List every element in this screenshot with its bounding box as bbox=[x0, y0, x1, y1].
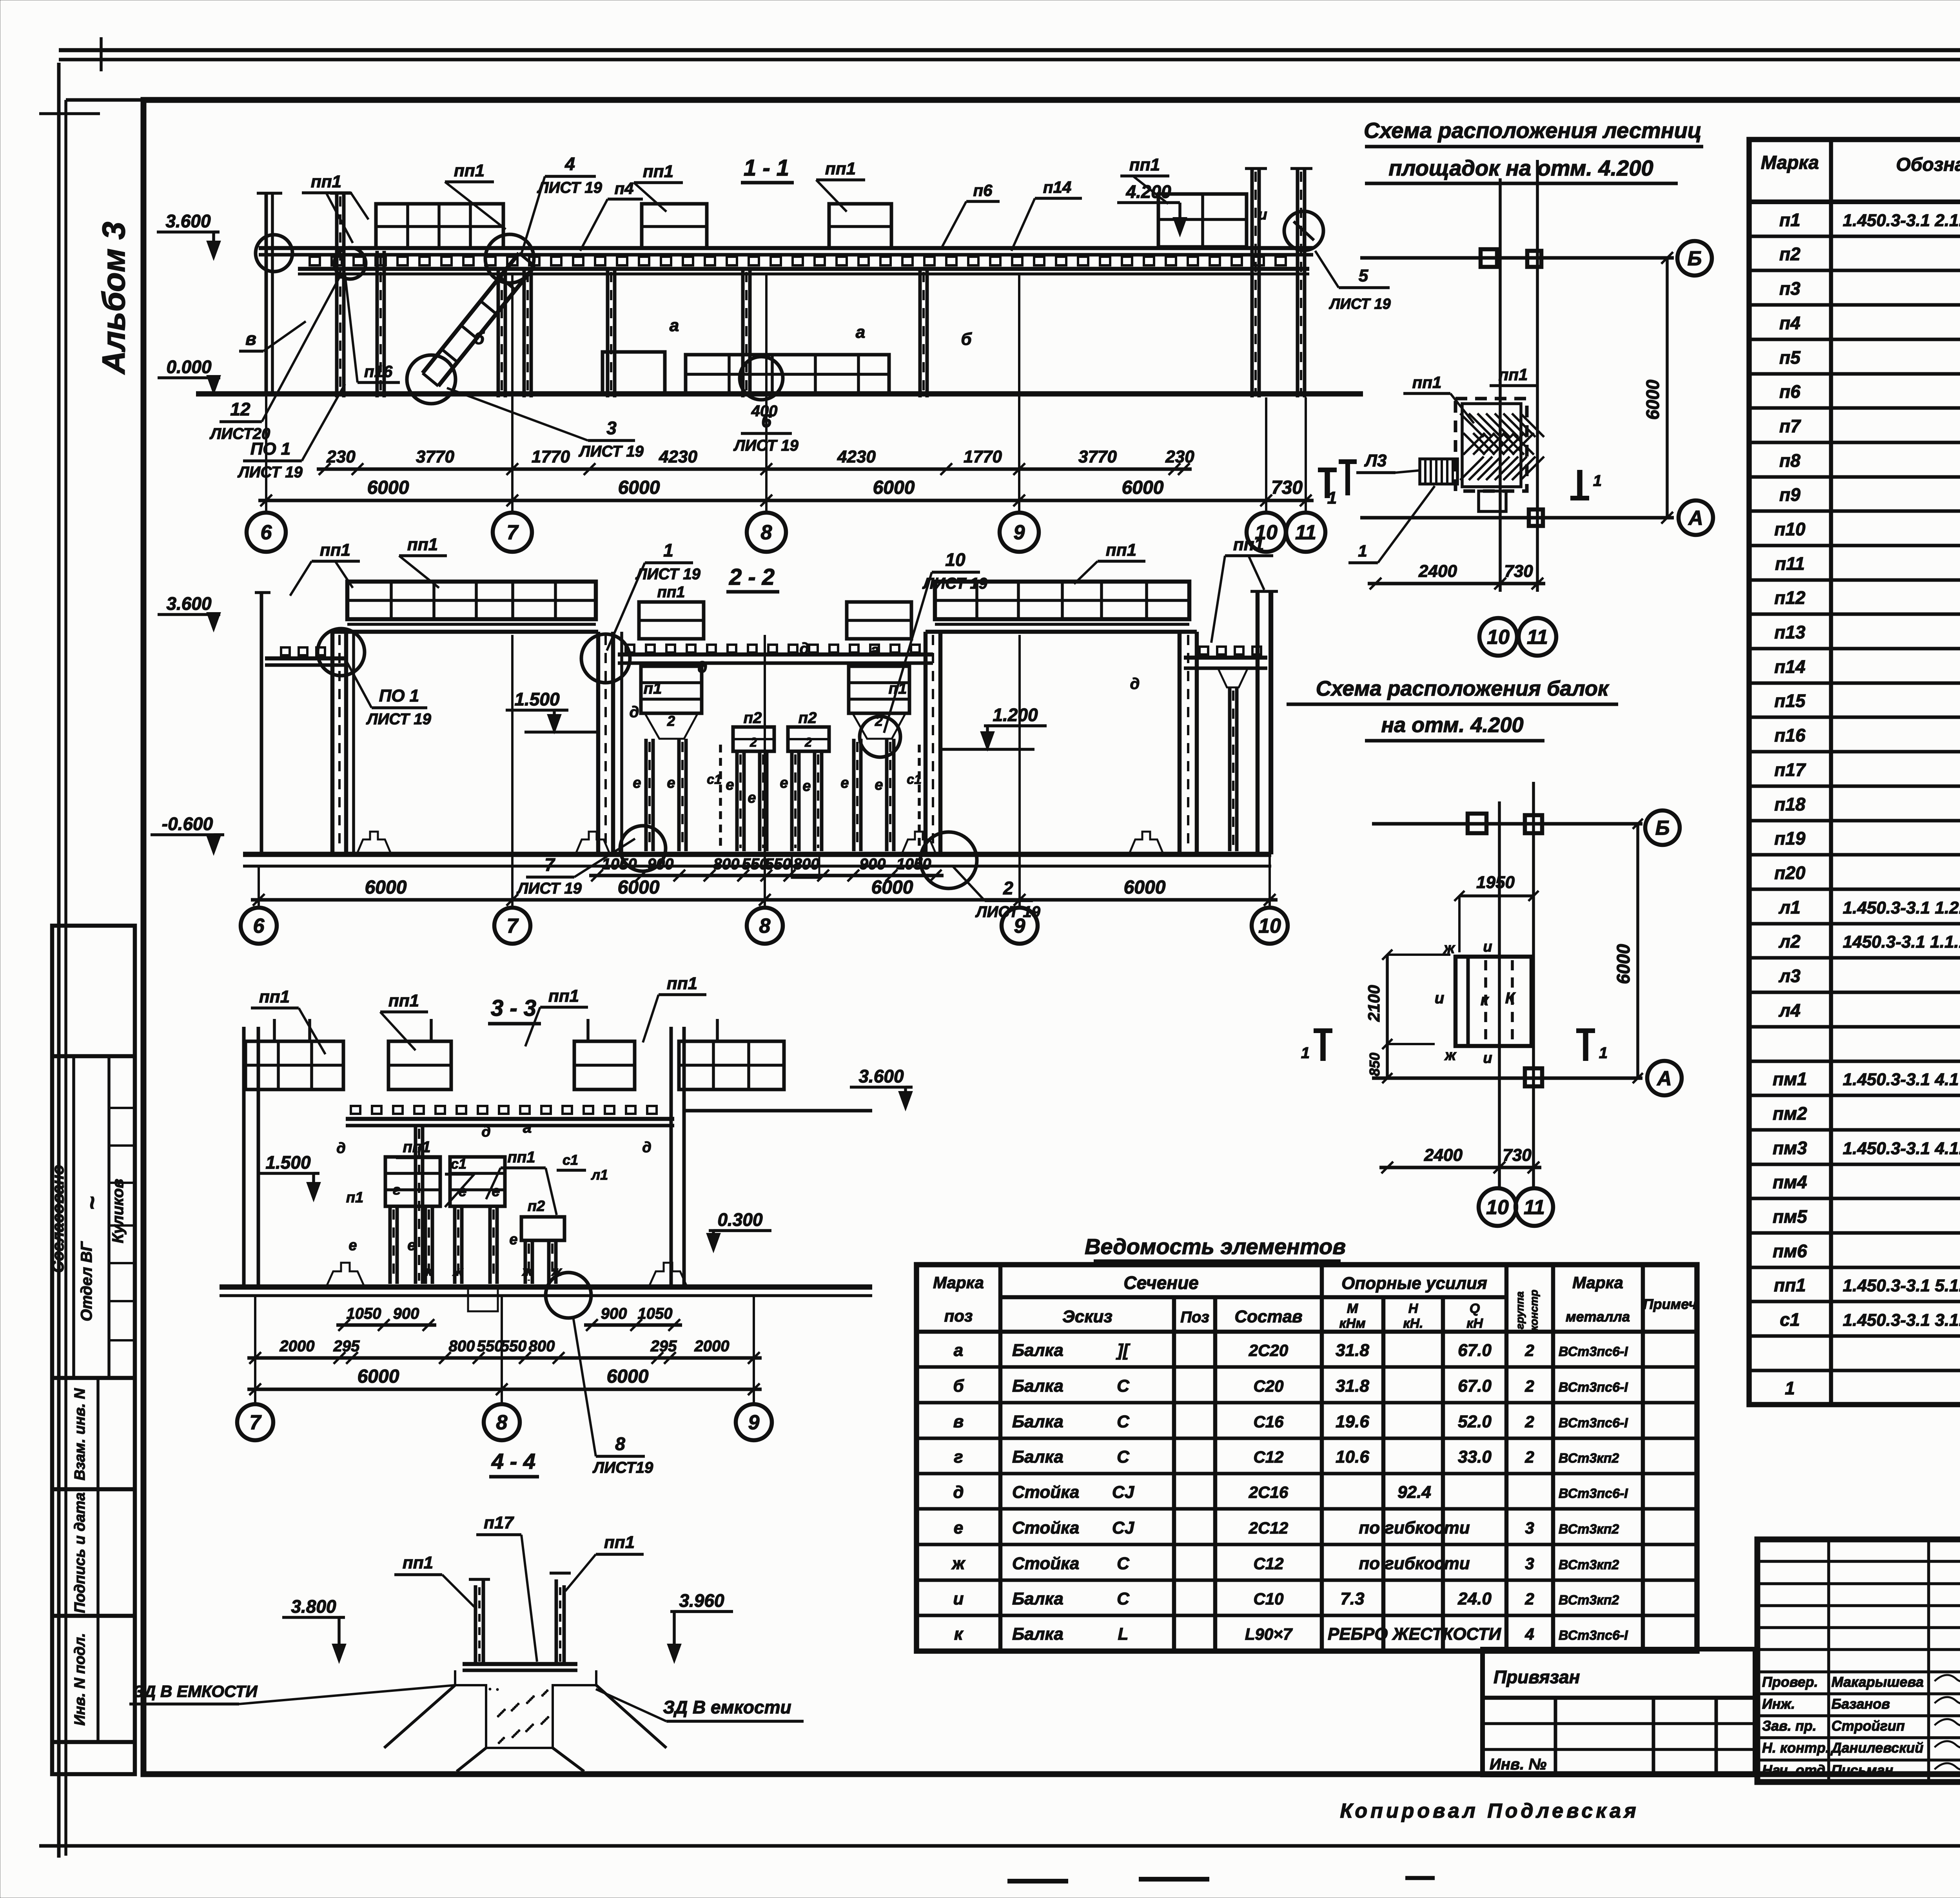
svg-text:1050: 1050 bbox=[638, 1305, 673, 1322]
svg-text:п17: п17 bbox=[1774, 760, 1806, 780]
svg-text:Примеч: Примеч bbox=[1643, 1296, 1697, 1312]
svg-text:пм4: пм4 bbox=[1773, 1172, 1807, 1192]
scheme1 axis circles bottom bbox=[1479, 618, 1517, 656]
svg-text:п1: п1 bbox=[644, 680, 662, 697]
svg-text:пм3: пм3 bbox=[1773, 1138, 1807, 1158]
svg-text:пм1: пм1 bbox=[1773, 1069, 1807, 1089]
svg-text:п2: п2 bbox=[799, 709, 817, 727]
witness lines 3-3 bbox=[254, 1296, 256, 1403]
svg-text:1.450.3-3.1 5.1.0.1.0: 1.450.3-3.1 5.1.0.1.0 bbox=[1843, 1276, 1960, 1295]
scheme2 dims bottom bbox=[1379, 1166, 1541, 1169]
c1 posts 2-2 bbox=[719, 745, 722, 851]
svg-text:С: С bbox=[1117, 1376, 1130, 1396]
svg-text:М: М bbox=[1347, 1301, 1358, 1316]
scheme1 stair treads bbox=[1420, 459, 1457, 484]
svg-text:а: а bbox=[523, 1119, 532, 1136]
svg-text:1450.3-3.1 1.1.1.0.0: 1450.3-3.1 1.1.1.0.0 bbox=[1843, 932, 1960, 952]
svg-text:9: 9 bbox=[1014, 521, 1025, 544]
svg-text:31.8: 31.8 bbox=[1336, 1341, 1369, 1360]
svg-text:295: 295 bbox=[333, 1338, 360, 1355]
3-3 right wall bbox=[670, 1027, 673, 1287]
svg-text:Стойка: Стойка bbox=[1012, 1483, 1079, 1502]
dim chain 1-1 6000 bbox=[258, 499, 1314, 502]
svg-text:Балка: Балка bbox=[1012, 1412, 1063, 1431]
svg-text:1.500: 1.500 bbox=[514, 689, 560, 709]
svg-text:пп1: пп1 bbox=[1499, 365, 1528, 384]
svg-text:Балка: Балка bbox=[1012, 1589, 1063, 1608]
svg-text:л2: л2 bbox=[1779, 931, 1801, 952]
svg-text:Привязан: Привязан bbox=[1494, 1667, 1580, 1687]
svg-text:1: 1 bbox=[1599, 1044, 1608, 1062]
svg-text:550: 550 bbox=[765, 856, 791, 873]
svg-text:6000: 6000 bbox=[1122, 477, 1164, 498]
svg-text:п18: п18 bbox=[1774, 794, 1806, 814]
svg-text:ЛИСТ 19: ЛИСТ 19 bbox=[1328, 296, 1390, 312]
svg-text:пп1: пп1 bbox=[311, 172, 341, 191]
svg-text:Обозначение: Обозначение bbox=[1896, 154, 1960, 175]
svg-text:Состав: Состав bbox=[1234, 1307, 1302, 1326]
3-3 left wall bbox=[242, 1027, 246, 1287]
svg-text:Балка: Балка bbox=[1012, 1624, 1063, 1644]
3-3 foundation bumps bbox=[326, 1263, 365, 1287]
svg-text:д: д bbox=[698, 659, 708, 676]
svg-text:п3: п3 bbox=[1779, 278, 1800, 299]
foundation bumps 2-2 bbox=[357, 832, 391, 854]
svg-text:пп1: пп1 bbox=[1129, 155, 1160, 174]
svg-text:е: е bbox=[802, 778, 811, 794]
svg-text:7.3: 7.3 bbox=[1340, 1589, 1364, 1608]
svg-text:Л3: Л3 bbox=[1364, 451, 1387, 470]
svg-text:и: и bbox=[1435, 990, 1444, 1007]
svg-text:3.600: 3.600 bbox=[165, 211, 211, 231]
svg-text:ЛИСТ19: ЛИСТ19 bbox=[592, 1459, 653, 1476]
svg-text:е: е bbox=[875, 777, 883, 793]
svg-text:3.800: 3.800 bbox=[291, 1596, 336, 1617]
svg-text:31.8: 31.8 bbox=[1336, 1376, 1369, 1396]
svg-text:6000: 6000 bbox=[1124, 877, 1166, 898]
svg-text:6000: 6000 bbox=[873, 477, 915, 498]
svg-text:К: К bbox=[1505, 990, 1516, 1007]
svg-text:пп1: пп1 bbox=[403, 1553, 433, 1572]
svg-text:230: 230 bbox=[326, 447, 356, 466]
svg-text:п1: п1 bbox=[346, 1189, 363, 1206]
svg-text:8: 8 bbox=[615, 1434, 625, 1454]
svg-text:С16: С16 bbox=[1253, 1412, 1284, 1431]
svg-text:Схема расположения лестниц: Схема расположения лестниц bbox=[1364, 118, 1702, 143]
svg-text:д: д bbox=[642, 1139, 652, 1156]
4-4 splay lines bbox=[384, 1685, 455, 1748]
3-3 mid posts bbox=[414, 1126, 417, 1284]
axis circles 1-1 bbox=[247, 513, 286, 552]
svg-text:2100: 2100 bbox=[1365, 985, 1383, 1022]
svg-text:б: б bbox=[474, 329, 485, 348]
svg-text:2С16: 2С16 bbox=[1249, 1483, 1289, 1501]
svg-text:6000: 6000 bbox=[367, 477, 409, 498]
svg-text:е: е bbox=[492, 1183, 500, 1200]
svg-text:пм6: пм6 bbox=[1773, 1241, 1807, 1261]
svg-text:1.450.3-3.1 2.1.1.0.0: 1.450.3-3.1 2.1.1.0.0 bbox=[1843, 211, 1960, 230]
scheme2 column squares bbox=[1468, 814, 1486, 833]
svg-text:Базанов: Базанов bbox=[1831, 1696, 1890, 1712]
svg-text:по гибкости: по гибкости bbox=[1359, 1518, 1470, 1537]
svg-text:п2: п2 bbox=[1779, 244, 1800, 264]
section 2-2 floor bbox=[243, 852, 1271, 857]
svg-text:3: 3 bbox=[1525, 1554, 1534, 1573]
svg-text:п5: п5 bbox=[1779, 347, 1801, 368]
svg-text:пп1: пп1 bbox=[1106, 540, 1136, 560]
svg-text:10: 10 bbox=[945, 549, 965, 570]
svg-text:п20: п20 bbox=[1774, 863, 1806, 883]
sheet outer border bbox=[57, 63, 61, 1858]
svg-text:пп1: пп1 bbox=[548, 986, 579, 1006]
2-2 right cantilever bbox=[1184, 656, 1267, 660]
svg-text:п7: п7 bbox=[1779, 416, 1801, 436]
svg-text:-0.600: -0.600 bbox=[162, 814, 213, 834]
svg-text:е: е bbox=[726, 777, 734, 793]
svg-text:2: 2 bbox=[667, 713, 675, 729]
svg-text:е: е bbox=[509, 1231, 517, 1248]
svg-text:Балка: Балка bbox=[1012, 1447, 1063, 1467]
svg-text:е: е bbox=[748, 790, 756, 806]
svg-text:67.0: 67.0 bbox=[1458, 1376, 1492, 1396]
svg-text:400: 400 bbox=[751, 402, 778, 420]
svg-text:L: L bbox=[1118, 1624, 1129, 1644]
scheme2 axis B bbox=[1372, 822, 1642, 826]
svg-text:][: ][ bbox=[1116, 1341, 1131, 1360]
svg-text:4 - 4: 4 - 4 bbox=[491, 1449, 535, 1474]
svg-text:4: 4 bbox=[1524, 1625, 1534, 1643]
svg-text:3: 3 bbox=[606, 418, 617, 438]
svg-text:ПО 1: ПО 1 bbox=[379, 686, 419, 705]
svg-text:Балка: Балка bbox=[1012, 1341, 1063, 1360]
svg-text:2: 2 bbox=[875, 713, 883, 729]
svg-text:и: и bbox=[953, 1589, 964, 1608]
svg-text:ВСт3пс6-I: ВСт3пс6-I bbox=[1559, 1344, 1628, 1359]
svg-text:л1: л1 bbox=[1779, 897, 1800, 917]
svg-text:ВСт3пс6-I: ВСт3пс6-I bbox=[1559, 1486, 1628, 1501]
svg-text:а: а bbox=[871, 642, 879, 659]
svg-text:2: 2 bbox=[1524, 1412, 1534, 1431]
svg-text:и: и bbox=[1483, 1050, 1492, 1066]
svg-text:8: 8 bbox=[761, 521, 772, 544]
dim chain 2-2 6000 bbox=[251, 898, 1278, 902]
svg-text:ж: ж bbox=[1444, 1047, 1457, 1064]
svg-text:7: 7 bbox=[507, 915, 519, 937]
svg-text:2000: 2000 bbox=[279, 1338, 315, 1355]
svg-text:900: 900 bbox=[860, 856, 886, 873]
svg-text:10.6: 10.6 bbox=[1336, 1447, 1369, 1467]
svg-text:п2: п2 bbox=[528, 1198, 545, 1215]
svg-text:кН: кН bbox=[1466, 1316, 1483, 1331]
svg-text:д: д bbox=[953, 1483, 964, 1502]
svg-text:С12: С12 bbox=[1253, 1448, 1283, 1466]
svg-text:е: е bbox=[348, 1237, 357, 1254]
svg-text:800: 800 bbox=[529, 1338, 555, 1355]
svg-text:с1: с1 bbox=[451, 1156, 466, 1172]
svg-text:Стройгип: Стройгип bbox=[1831, 1718, 1905, 1734]
svg-text:с1: с1 bbox=[707, 772, 722, 787]
scheme1 vertical axes bbox=[1499, 178, 1502, 592]
svg-text:1.450.3-3.1 3.1.0.1.0: 1.450.3-3.1 3.1.0.1.0 bbox=[1843, 1311, 1960, 1330]
svg-text:~: ~ bbox=[79, 1196, 105, 1210]
svg-text:ЗД В ЕМКОСТИ: ЗД В ЕМКОСТИ bbox=[133, 1682, 258, 1700]
svg-text:4230: 4230 bbox=[659, 447, 697, 466]
svg-text:л1: л1 bbox=[591, 1167, 608, 1183]
witness lines to axes 1-1 bbox=[265, 193, 267, 514]
3-3 top stubs bbox=[273, 1019, 276, 1041]
p2 boxes 2-2 bbox=[733, 727, 774, 751]
scheme2 right dim 6000 bbox=[1636, 824, 1639, 1078]
svg-text:Ведомость элементов: Ведомость элементов bbox=[1085, 1234, 1346, 1259]
svg-text:Зав. пр.: Зав. пр. bbox=[1762, 1718, 1817, 1734]
scheme1 vertical dim 6000 bbox=[1666, 258, 1669, 518]
svg-text:550: 550 bbox=[501, 1338, 527, 1355]
svg-text:3 - 3: 3 - 3 bbox=[491, 995, 536, 1021]
svg-text:п1: п1 bbox=[1779, 210, 1800, 230]
svg-text:1770: 1770 bbox=[532, 447, 570, 466]
svg-text:д: д bbox=[1130, 675, 1140, 692]
svg-text:пп1: пп1 bbox=[407, 535, 438, 554]
svg-text:Отдел ВГ: Отдел ВГ bbox=[78, 1241, 95, 1321]
svg-text:1.200: 1.200 bbox=[993, 705, 1038, 725]
4-4 rails bbox=[474, 1585, 477, 1664]
svg-text:п15: п15 bbox=[1774, 691, 1806, 711]
3-3 dims bbox=[336, 1323, 436, 1327]
svg-text:пп1: пп1 bbox=[320, 540, 350, 560]
svg-text:1.450.3-3.1 4.1 2.1.0: 1.450.3-3.1 4.1 2.1.0 bbox=[1843, 1070, 1960, 1089]
svg-text:п16: п16 bbox=[364, 362, 393, 381]
scheme1 column squares bbox=[1481, 249, 1497, 267]
svg-text:Н: Н bbox=[1408, 1301, 1419, 1316]
svg-text:е: е bbox=[780, 775, 788, 791]
svg-text:пп1: пп1 bbox=[403, 1138, 430, 1156]
svg-text:Данилевский: Данилевский bbox=[1830, 1740, 1924, 1756]
svg-text:2: 2 bbox=[1003, 878, 1013, 898]
svg-text:1: 1 bbox=[1593, 472, 1602, 489]
svg-text:2: 2 bbox=[1524, 1448, 1534, 1466]
svg-text:10: 10 bbox=[1486, 1196, 1509, 1219]
platform plank symbols bbox=[310, 257, 320, 265]
svg-text:ВСт3кп2: ВСт3кп2 bbox=[1559, 1451, 1619, 1466]
2-2 left edge post bbox=[260, 593, 263, 854]
svg-text:л3: л3 bbox=[1779, 966, 1801, 986]
svg-text:п8: п8 bbox=[1779, 450, 1800, 471]
4-4 beam bbox=[463, 1662, 577, 1666]
svg-text:2: 2 bbox=[804, 735, 812, 749]
svg-text:д: д bbox=[481, 1124, 491, 1140]
scheme2 section marks bbox=[1320, 1031, 1326, 1061]
2-2 far right wall bbox=[1256, 591, 1260, 854]
left tank wall 2-2 bbox=[330, 632, 335, 854]
svg-text:730: 730 bbox=[1504, 562, 1533, 581]
railing R2 bbox=[642, 204, 707, 248]
svg-text:1: 1 bbox=[1785, 1378, 1795, 1398]
right tank 2-2 bbox=[924, 632, 928, 854]
svg-text:ж: ж bbox=[951, 1554, 966, 1573]
svg-text:е: е bbox=[954, 1518, 963, 1537]
svg-text:Марка: Марка bbox=[1572, 1273, 1623, 1292]
svg-text:800: 800 bbox=[793, 856, 820, 873]
svg-text:6000: 6000 bbox=[358, 1366, 399, 1387]
3-3 equipment right bbox=[450, 1157, 505, 1206]
svg-text:1.450.3-3.1 4.1.1.1.0: 1.450.3-3.1 4.1.1.1.0 bbox=[1843, 1139, 1960, 1158]
svg-text:в: в bbox=[953, 1412, 964, 1431]
svg-text:52.0: 52.0 bbox=[1458, 1412, 1492, 1431]
svg-text:пп1: пп1 bbox=[667, 974, 697, 993]
svg-text:2: 2 bbox=[1524, 1590, 1534, 1608]
svg-text:6000: 6000 bbox=[618, 877, 660, 898]
scheme1 small bottom box bbox=[1479, 491, 1506, 511]
scheme1 axis B line bbox=[1360, 256, 1674, 260]
svg-text:3770: 3770 bbox=[1078, 447, 1117, 466]
svg-text:230: 230 bbox=[1165, 447, 1194, 466]
svg-text:Эскиз: Эскиз bbox=[1062, 1307, 1112, 1326]
svg-text:ж: ж bbox=[421, 1264, 433, 1279]
equipment cluster B 2-2 bbox=[847, 602, 911, 639]
scheme1 section marks bbox=[1325, 470, 1330, 498]
svg-text:площадок на отм. 4.200: площадок на отм. 4.200 bbox=[1388, 156, 1653, 180]
svg-text:10: 10 bbox=[1258, 915, 1281, 937]
svg-text:900: 900 bbox=[648, 856, 674, 873]
privyazan table bbox=[1483, 1649, 1755, 1775]
svg-text:Подпись и дата: Подпись и дата bbox=[72, 1492, 88, 1613]
svg-text:е: е bbox=[667, 775, 675, 791]
3-3 platform band bbox=[346, 1117, 674, 1121]
svg-text:8: 8 bbox=[496, 1411, 508, 1434]
4-4 foundation bbox=[455, 1670, 596, 1748]
svg-text:Балка: Балка bbox=[1012, 1376, 1063, 1396]
svg-text:2: 2 bbox=[1524, 1341, 1534, 1360]
svg-text:6000: 6000 bbox=[618, 477, 660, 498]
svg-text:Нач. отд: Нач. отд bbox=[1762, 1762, 1825, 1778]
stair diagonal 1-1 bbox=[423, 253, 519, 373]
svg-text:8: 8 bbox=[759, 915, 771, 937]
svg-text:а: а bbox=[856, 323, 865, 342]
axis circles 3-3 bbox=[237, 1404, 273, 1440]
strip lower labels bbox=[96, 1378, 100, 1742]
svg-text:пп1: пп1 bbox=[604, 1533, 635, 1552]
svg-text:к: к bbox=[954, 1624, 964, 1644]
svg-text:п6: п6 bbox=[1779, 381, 1800, 402]
left stamp strip bbox=[52, 926, 135, 1774]
scheme1 axis A line bbox=[1360, 516, 1674, 520]
svg-text:6000: 6000 bbox=[871, 877, 913, 898]
svg-text:3.600: 3.600 bbox=[858, 1066, 904, 1086]
svg-text:ЛИСТ 19: ЛИСТ 19 bbox=[635, 566, 701, 583]
svg-text:С20: С20 bbox=[1253, 1377, 1283, 1395]
svg-text:С10: С10 bbox=[1253, 1590, 1283, 1608]
svg-text:Письман: Письман bbox=[1831, 1762, 1893, 1778]
scheme2 axis A bbox=[1372, 1077, 1642, 1080]
svg-text:г: г bbox=[954, 1447, 963, 1467]
svg-text:ВСт3кп2: ВСт3кп2 bbox=[1559, 1557, 1619, 1572]
3-3 floor bbox=[220, 1284, 872, 1290]
svg-text:1050: 1050 bbox=[897, 856, 931, 873]
svg-text:в: в bbox=[245, 328, 256, 349]
svg-text:пм5: пм5 bbox=[1773, 1206, 1808, 1227]
scan artifacts bottom edge bbox=[1007, 1879, 1068, 1883]
svg-text:Альбом 3: Альбом 3 bbox=[96, 222, 132, 375]
svg-text:пп1: пп1 bbox=[657, 584, 685, 601]
svg-text:на отм. 4.200: на отм. 4.200 bbox=[1381, 713, 1523, 737]
2-2 left cantilever platform bbox=[265, 656, 344, 661]
svg-text:п4: п4 bbox=[614, 179, 633, 198]
title block signature grid bbox=[1757, 1538, 1960, 1541]
svg-text:1050: 1050 bbox=[347, 1305, 381, 1322]
svg-text:а: а bbox=[954, 1341, 963, 1360]
section mark T right bbox=[1345, 462, 1350, 495]
svg-text:пп1: пп1 bbox=[1412, 373, 1442, 392]
svg-text:ЛИСТ 19: ЛИСТ 19 bbox=[516, 880, 582, 897]
2-2 railing over right tank bbox=[935, 582, 1189, 619]
section 1-1 platform beams bbox=[259, 246, 1313, 250]
scheme1 dims bottom bbox=[1368, 582, 1545, 586]
svg-text:д: д bbox=[800, 640, 809, 657]
axis circles 2-2 bbox=[241, 908, 277, 944]
svg-text:6000: 6000 bbox=[1642, 379, 1663, 420]
svg-text:2С20: 2С20 bbox=[1249, 1341, 1288, 1360]
svg-text:с1: с1 bbox=[1780, 1309, 1800, 1330]
svg-text:7: 7 bbox=[250, 1411, 262, 1434]
svg-text:ПО 1: ПО 1 bbox=[250, 439, 291, 459]
svg-text:800: 800 bbox=[449, 1338, 475, 1355]
svg-text:ЛИСТ 19: ЛИСТ 19 bbox=[578, 443, 644, 460]
svg-text:пп1: пп1 bbox=[507, 1149, 535, 1166]
svg-text:С: С bbox=[1117, 1412, 1130, 1431]
svg-text:11: 11 bbox=[1524, 1196, 1545, 1219]
svg-text:L90×7: L90×7 bbox=[1245, 1625, 1293, 1643]
right wall of left tank bbox=[596, 632, 601, 854]
svg-text:п10: п10 bbox=[1774, 519, 1806, 539]
svg-text:и: и bbox=[1483, 939, 1492, 955]
svg-text:6: 6 bbox=[253, 915, 265, 937]
3-3 railing blocks above bbox=[245, 1041, 343, 1089]
svg-text:7: 7 bbox=[544, 854, 555, 875]
svg-text:пп1: пп1 bbox=[825, 159, 856, 178]
svg-text:0.000: 0.000 bbox=[166, 357, 212, 377]
svg-text:б: б bbox=[953, 1376, 964, 1396]
svg-text:4: 4 bbox=[564, 154, 575, 174]
scheme2 vertical axes bbox=[1498, 801, 1501, 1189]
svg-text:к: к bbox=[1481, 992, 1489, 1009]
svg-text:п11: п11 bbox=[1775, 553, 1805, 574]
3-3 detail leader bbox=[546, 1273, 591, 1318]
svg-text:А: А bbox=[1688, 507, 1703, 529]
svg-text:ВСт3пс6-I: ВСт3пс6-I bbox=[1559, 1628, 1628, 1643]
svg-text:9: 9 bbox=[748, 1411, 760, 1434]
witness lines 2-2 bbox=[258, 866, 260, 908]
svg-text:Копировал Подлевская: Копировал Подлевская bbox=[1340, 1800, 1639, 1822]
svg-text:ВСт3пс6-I: ВСт3пс6-I bbox=[1559, 1416, 1628, 1430]
svg-text:Схема расположения балок: Схема расположения балок bbox=[1316, 677, 1610, 700]
svg-text:6: 6 bbox=[261, 521, 272, 544]
svg-text:пп1: пп1 bbox=[1233, 535, 1264, 554]
svg-text:19.6: 19.6 bbox=[1336, 1412, 1369, 1431]
svg-text:по гибкости: по гибкости bbox=[1359, 1554, 1470, 1573]
svg-text:ЗД В емкости: ЗД В емкости bbox=[663, 1697, 791, 1717]
svg-text:п12: п12 bbox=[1774, 587, 1806, 608]
columns section 1-1 bbox=[335, 193, 339, 397]
svg-text:Марка: Марка bbox=[1761, 152, 1819, 173]
svg-text:ж: ж bbox=[452, 1264, 463, 1279]
svg-text:2: 2 bbox=[750, 735, 757, 749]
svg-text:металла: металла bbox=[1566, 1309, 1630, 1325]
scheme2 beam square bbox=[1455, 957, 1532, 1046]
svg-text:3.600: 3.600 bbox=[166, 593, 212, 614]
svg-text:пп1: пп1 bbox=[259, 987, 290, 1006]
svg-text:4230: 4230 bbox=[837, 447, 876, 466]
svg-text:11: 11 bbox=[1295, 521, 1316, 544]
